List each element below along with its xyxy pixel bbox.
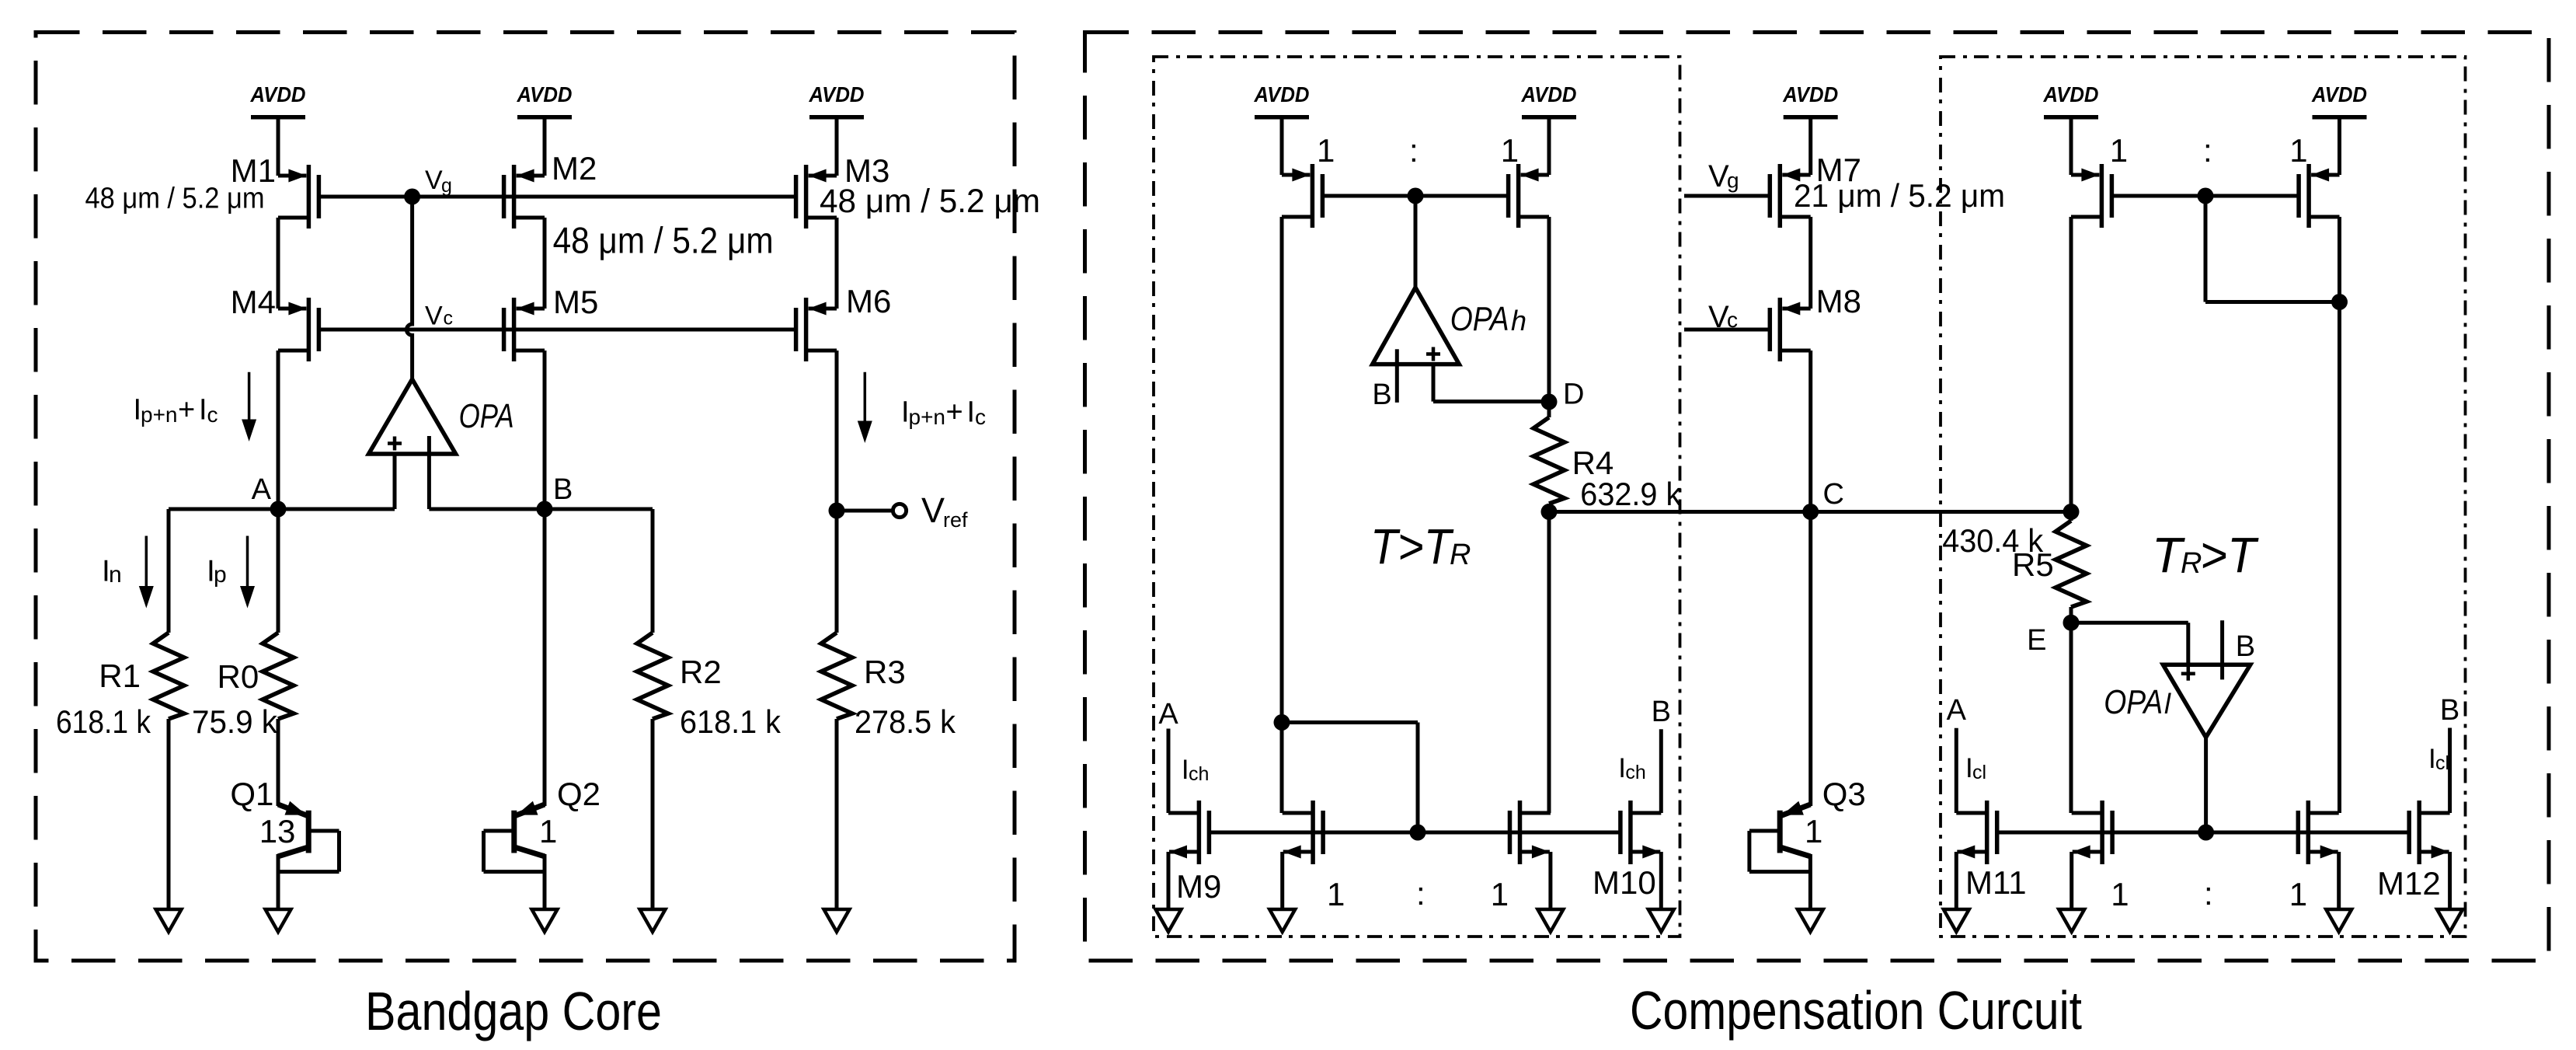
ground (R2) — [640, 909, 666, 932]
transistor P1 left (1) — [1282, 164, 1322, 228]
transistor M12 — [2409, 801, 2449, 864]
transistor M3 — [796, 165, 837, 228]
svg-text:p+n: p+n — [141, 403, 178, 427]
svg-text:AVDD: AVDD — [250, 82, 306, 106]
wire node A to R0 — [277, 509, 280, 633]
node P1 left drain junction — [1274, 714, 1290, 731]
node P2 gate — [2198, 188, 2214, 204]
label Icl (M11) — [1965, 753, 1986, 783]
wire P2 diode link — [2205, 196, 2340, 302]
svg-text:c: c — [444, 308, 454, 330]
wire M10 source to ground — [1659, 852, 1663, 909]
wire OPAl output to NMOS gate rail — [2204, 738, 2208, 832]
svg-text:A: A — [1947, 694, 1967, 727]
wire node B to Q2 — [543, 509, 547, 806]
node NMOS gate rail junction (T>TR) — [1410, 825, 1426, 841]
svg-text:R: R — [1450, 539, 1471, 571]
svg-text:M11: M11 — [1965, 864, 2027, 901]
svg-text:B: B — [1652, 696, 1671, 728]
label A — [252, 473, 272, 506]
label R2 — [680, 654, 722, 690]
label 1 (P1 right) — [1501, 132, 1519, 169]
svg-text:1: 1 — [539, 813, 557, 849]
svg-text:c: c — [1727, 308, 1738, 332]
label : (N2 ratio) — [2204, 875, 2213, 912]
current arrow Ip+n+Ic (right) — [858, 372, 872, 443]
svg-text:AVDD: AVDD — [1521, 82, 1577, 106]
frame: Bandgap Core dashed box — [36, 33, 1015, 961]
ground (N1c) — [1537, 909, 1563, 932]
label 21 um / 5.2 um (M7) — [1794, 177, 2005, 214]
label Q3 — [1822, 776, 1866, 812]
label M2 — [552, 150, 597, 187]
power AVDD (P1 right) — [1521, 82, 1577, 175]
terminal Vref open circle — [893, 504, 906, 517]
net Vg rail — [319, 195, 796, 199]
label 1 (P2 left) — [2110, 132, 2128, 169]
svg-text:1: 1 — [1491, 876, 1509, 912]
svg-text:Q2: Q2 — [557, 776, 600, 812]
svg-text:D: D — [1563, 378, 1584, 411]
svg-text:>T: >T — [2200, 527, 2259, 583]
label B (M12) — [2440, 694, 2459, 727]
net C rail — [1549, 510, 2071, 514]
transistor Q1 — [278, 801, 339, 909]
label B (OPAl input) — [2236, 630, 2255, 663]
net Vc rail — [319, 328, 796, 332]
svg-text:V: V — [425, 166, 443, 195]
label Ich (M9) — [1182, 755, 1210, 785]
op-amp OPA — [369, 379, 456, 454]
node B — [537, 501, 553, 518]
svg-text:278.5 k: 278.5 k — [855, 703, 956, 740]
wire M5 drain to node B — [543, 351, 547, 509]
wire node C to Q3 — [1808, 512, 1812, 807]
wire node E to OPAl + input — [2071, 623, 2188, 665]
node E — [2063, 615, 2080, 631]
svg-text:B: B — [553, 473, 573, 506]
label : (N1 ratio) — [1416, 875, 1426, 912]
label Icl (M12) — [2428, 744, 2449, 774]
ground (M12) — [2437, 909, 2463, 932]
current arrow Ip — [240, 536, 255, 609]
svg-text:A: A — [252, 473, 272, 506]
svg-text:B: B — [2440, 694, 2459, 727]
svg-text:ch: ch — [1189, 763, 1209, 785]
svg-text:430.4 k: 430.4 k — [1942, 522, 2044, 559]
svg-text:1: 1 — [1501, 132, 1519, 169]
label M7 — [1816, 152, 1861, 188]
svg-text:g: g — [441, 175, 452, 197]
svg-text:1: 1 — [2110, 132, 2128, 169]
label 1 (N1b) — [1327, 876, 1345, 912]
label M3 — [844, 152, 889, 189]
wire R4 node down to N1c — [1547, 512, 1551, 814]
label M10 — [1593, 864, 1656, 901]
stub Vg (M7 gate) — [1684, 194, 1770, 198]
label 48 um / 5.2 um (M3) — [820, 183, 1040, 220]
transistor Q2 — [484, 801, 545, 909]
wire Vref node to terminal — [837, 509, 892, 513]
current arrow In — [139, 536, 154, 609]
wire M12 source to ground — [2448, 852, 2452, 909]
svg-text:R3: R3 — [864, 654, 906, 690]
node R4 bottom — [1541, 504, 1558, 520]
power AVDD (P1 left) — [1254, 82, 1310, 175]
svg-text:+: + — [946, 396, 963, 429]
node P2 right drain — [2331, 294, 2348, 310]
svg-text:1: 1 — [2289, 876, 2307, 912]
transistor M10 — [1620, 801, 1661, 864]
transistor P1 right (1) — [1509, 164, 1549, 228]
wire R5 to node E — [2070, 607, 2073, 623]
wire OPAh + input to node D — [1433, 365, 1549, 402]
wire diode link to NMOS gate rail — [1282, 723, 1418, 833]
transistor N1c (1) — [1510, 801, 1551, 864]
svg-text:ref: ref — [943, 508, 968, 532]
wire node B rail — [429, 508, 653, 511]
svg-text:l: l — [2164, 688, 2171, 720]
op-amp OPAh — [1373, 288, 1460, 365]
wire M7 drain to M8 source — [1808, 217, 1812, 309]
resistor R0 — [263, 633, 294, 719]
label B (OPAh input) — [1372, 378, 1391, 411]
title Bandgap Core — [365, 981, 662, 1041]
svg-text:R2: R2 — [680, 654, 722, 690]
svg-text:Q3: Q3 — [1822, 776, 1866, 812]
wire M1 drain to M4 source — [277, 218, 280, 309]
svg-text:632.9 k: 632.9 k — [1580, 476, 1682, 512]
transistor M9 — [1168, 801, 1209, 864]
svg-text:n: n — [109, 562, 122, 588]
svg-text:Bandgap Core: Bandgap Core — [365, 981, 662, 1041]
ground (Q3) — [1798, 909, 1823, 932]
svg-text:cl: cl — [2435, 752, 2449, 774]
node R5 top — [2063, 504, 2080, 520]
svg-text:T>T: T>T — [1370, 518, 1454, 574]
svg-text:R1: R1 — [99, 658, 141, 694]
ground (M9) — [1156, 909, 1182, 932]
node P1 gate — [1408, 188, 1424, 204]
svg-text:C: C — [1823, 478, 1844, 511]
svg-text:+: + — [178, 394, 195, 427]
transistor M4 — [278, 298, 319, 361]
label R4 — [1572, 445, 1614, 481]
label R3 — [864, 654, 906, 690]
transistor P2 left (1) — [2071, 164, 2111, 228]
svg-text:p: p — [214, 562, 227, 588]
title Compensation Curcuit — [1630, 980, 2082, 1041]
ground (N2c) — [2326, 909, 2351, 932]
transistor N2b (1) — [2072, 801, 2112, 864]
svg-text:B: B — [2236, 630, 2255, 663]
wire R3 to ground — [835, 719, 839, 909]
svg-text:V: V — [425, 302, 443, 331]
wire OPAh - input stub (net B) — [1395, 365, 1399, 403]
transistor M7 — [1770, 164, 1810, 228]
label 48 um / 5.2 um (M2) — [553, 219, 774, 260]
frame: TR>T dash-dot box — [1941, 57, 2466, 937]
ground (N1b) — [1269, 909, 1295, 932]
transistor N2c (1) — [2298, 801, 2338, 864]
svg-text:I: I — [199, 394, 207, 427]
svg-text:AVDD: AVDD — [809, 82, 865, 106]
label : (P2 ratio) — [2203, 132, 2212, 169]
label 618.1 k (R2) — [680, 703, 782, 740]
wire P2 right drain down — [2338, 217, 2341, 302]
svg-text:618.1 k: 618.1 k — [56, 703, 151, 740]
label A (M9) — [1158, 698, 1178, 731]
power AVDD (P2 left) — [2043, 82, 2099, 175]
wire N2c source to ground — [2337, 852, 2341, 909]
svg-text:ch: ch — [1625, 762, 1645, 783]
svg-text::: : — [1416, 875, 1426, 912]
svg-text:Compensation Curcuit: Compensation Curcuit — [1630, 980, 2082, 1041]
svg-text:1: 1 — [2111, 876, 2129, 912]
transistor N1b (1) — [1283, 801, 1323, 864]
label Vg — [425, 166, 452, 197]
svg-text:48 μm / 5.2 μm: 48 μm / 5.2 μm — [820, 183, 1040, 220]
label R1 — [99, 658, 141, 694]
label 48 um / 5.2 um (M1) — [85, 183, 265, 215]
frame: T>TR dash-dot box — [1154, 57, 1680, 937]
wire node A rail — [169, 508, 395, 511]
wire R0 to Q1 — [277, 719, 280, 806]
transistor M5 — [504, 298, 545, 361]
label Ich (M10) — [1618, 753, 1646, 783]
label T>TR — [1370, 518, 1471, 574]
frame: Compensation Curcuit dashed box — [1085, 33, 2550, 961]
resistor R5 — [2056, 521, 2087, 607]
svg-text::: : — [1409, 132, 1419, 169]
label 1 (P2 right) — [2289, 132, 2307, 169]
transistor M2 — [504, 165, 545, 228]
label : (P1 ratio) — [1409, 132, 1419, 169]
svg-text:p+n: p+n — [909, 405, 946, 429]
ground (R3) — [824, 909, 850, 932]
svg-text:c: c — [975, 405, 986, 429]
svg-text:AVDD: AVDD — [2311, 82, 2367, 106]
label D — [1563, 378, 1584, 411]
wire Vref to R3 — [835, 511, 839, 633]
label Ip+n+Ic (left) — [134, 394, 218, 427]
wire M8 drain to node C — [1808, 351, 1812, 512]
stub net B (M12) — [2448, 728, 2452, 814]
label Q1 — [230, 776, 273, 812]
power AVDD (M1) — [250, 82, 306, 176]
svg-text:48 μm / 5.2 μm: 48 μm / 5.2 μm — [85, 183, 265, 215]
svg-text:1: 1 — [1327, 876, 1345, 912]
svg-text:13: 13 — [259, 813, 296, 849]
label M1 — [231, 152, 276, 189]
wire M3 drain to M6 source — [835, 218, 839, 309]
label C — [1823, 478, 1844, 511]
transistor M6 — [796, 298, 837, 361]
node C — [1802, 504, 1819, 520]
resistor R2 — [637, 633, 668, 719]
svg-text:g: g — [1727, 169, 1739, 193]
wire M6 drain to Vref node — [835, 351, 839, 511]
label M8 — [1816, 283, 1861, 319]
label E — [2027, 624, 2046, 657]
svg-text:V: V — [1708, 159, 1729, 194]
transistor P2 right (1) — [2299, 164, 2339, 228]
label 75.9 k (R0) — [192, 703, 278, 740]
svg-text:AVDD: AVDD — [517, 82, 573, 106]
stub Vc (M8 gate) — [1684, 328, 1770, 332]
svg-text:OPA: OPA — [1450, 300, 1509, 338]
ground (Q2) — [532, 909, 558, 932]
wire P1 left drain to N1b — [1280, 723, 1284, 814]
svg-text:M8: M8 — [1816, 283, 1861, 319]
label 1 (P1 left) — [1317, 132, 1335, 169]
svg-text:1: 1 — [1317, 132, 1335, 169]
ground (M11) — [1944, 909, 1969, 932]
wire OPA + input to node A rail — [393, 454, 397, 509]
svg-text:618.1 k: 618.1 k — [680, 703, 782, 740]
ground (R1) — [156, 909, 182, 932]
svg-text:M2: M2 — [552, 150, 597, 187]
label OPAl — [2104, 683, 2171, 721]
svg-text:V: V — [1708, 300, 1729, 334]
svg-text:AVDD: AVDD — [1782, 82, 1838, 106]
wire N1b source to ground — [1280, 852, 1284, 909]
svg-text:OPA: OPA — [2104, 683, 2163, 721]
net NMOS gate rail (TR>T) — [1997, 831, 2410, 835]
op-amp OPAl — [2163, 665, 2250, 737]
label A (M11) — [1947, 694, 1967, 727]
label OPA — [459, 397, 514, 435]
wire P2 left drain down to R5 top — [2070, 217, 2073, 512]
label 430.4 k (R5) — [1942, 522, 2044, 559]
label M11 — [1965, 864, 2027, 901]
wire P1 gate node to OPAh — [1414, 196, 1418, 288]
label 1 (N1c) — [1491, 876, 1509, 912]
label M9 — [1176, 868, 1221, 905]
svg-text:M9: M9 — [1176, 868, 1221, 905]
wire OPAl - input stub (net B) — [2220, 620, 2224, 665]
svg-text:cl: cl — [1972, 762, 1986, 783]
label OPAh — [1450, 300, 1526, 338]
wire M4 drain to node A — [277, 351, 280, 509]
svg-text:B: B — [1372, 378, 1391, 411]
wire D to R4 — [1547, 402, 1551, 417]
wire R2 to ground — [651, 719, 655, 909]
wire node E down to N2b — [2070, 623, 2073, 813]
wire M2 drain to M5 source — [543, 218, 547, 309]
svg-text:AVDD: AVDD — [1254, 82, 1310, 106]
svg-text:c: c — [207, 403, 218, 427]
svg-text:R0: R0 — [218, 658, 259, 695]
stub net A (M9) — [1167, 729, 1171, 814]
label Ip — [207, 555, 227, 588]
wire R1 to ground — [167, 719, 171, 909]
svg-text:h: h — [1511, 305, 1526, 337]
label M5 — [553, 284, 598, 320]
wire P1 left drain down — [1280, 217, 1284, 723]
label M6 — [846, 283, 891, 319]
wire M9 source to ground — [1167, 852, 1171, 909]
wire P1 right drain to node D — [1547, 217, 1551, 402]
svg-text:R: R — [2181, 547, 2202, 580]
svg-text::: : — [2203, 132, 2212, 169]
svg-text:E: E — [2027, 624, 2046, 657]
label M4 — [231, 284, 276, 320]
transistor M8 — [1770, 298, 1810, 361]
stub net A (M11) — [1955, 728, 1958, 813]
wire node B to R2 — [651, 509, 655, 633]
wire OPA - input to node B rail — [427, 454, 431, 509]
svg-text:Q1: Q1 — [230, 776, 273, 812]
svg-text:1: 1 — [1805, 813, 1822, 849]
label M12 — [2377, 865, 2441, 902]
ground (N2b) — [2059, 909, 2084, 932]
current arrow Ip+n+Ic (left) — [242, 372, 256, 441]
label Vref — [921, 490, 968, 532]
label 1 (N2b) — [2111, 876, 2129, 912]
wire Vg to OPA output (hop over Vc) — [406, 197, 412, 379]
wire node A to R1 — [167, 509, 171, 633]
wire N2b source to ground — [2070, 852, 2073, 909]
transistor M11 — [1956, 801, 1996, 864]
node Vg — [404, 189, 420, 205]
transistor Q3 — [1749, 801, 1811, 909]
label B — [553, 473, 573, 506]
label 1 (Q2) — [539, 813, 557, 849]
svg-text:75.9 k: 75.9 k — [192, 703, 278, 740]
stub net B (M10) — [1659, 729, 1663, 813]
label TR>T — [2152, 527, 2259, 583]
node A — [270, 501, 287, 518]
ground (M10) — [1648, 909, 1674, 932]
wire M11 source to ground — [1955, 852, 1958, 909]
label 632.9 k (R4) — [1580, 476, 1682, 512]
resistor R4 — [1533, 417, 1565, 504]
svg-text:M12: M12 — [2377, 865, 2441, 902]
label B (M10) — [1652, 696, 1671, 728]
ground (Q1) — [266, 909, 291, 932]
svg-text:M10: M10 — [1593, 864, 1656, 901]
resistor R1 — [153, 633, 184, 719]
wire R4 to C rail node — [1547, 504, 1551, 512]
label Ip+n+Ic (right) — [901, 396, 986, 430]
label 1 (Q3) — [1805, 813, 1822, 849]
svg-text:48 μm / 5.2 μm: 48 μm / 5.2 μm — [553, 219, 774, 260]
label 1 (N2c) — [2289, 876, 2307, 912]
label R0 — [218, 658, 259, 695]
svg-text:M5: M5 — [553, 284, 598, 320]
svg-text::: : — [2204, 875, 2213, 912]
svg-text:V: V — [921, 490, 945, 530]
power AVDD (M3) — [809, 82, 865, 176]
node NMOS gate rail junction (TR>T) — [2198, 825, 2214, 841]
svg-text:A: A — [1158, 698, 1178, 731]
label R5 — [2012, 546, 2054, 583]
label Vc — [425, 302, 453, 331]
wire R5 top — [2070, 512, 2073, 522]
wire N1c source to ground — [1548, 852, 1552, 909]
svg-text:21 μm / 5.2 μm: 21 μm / 5.2 μm — [1794, 177, 2005, 214]
wire P2 right drain to N2c — [2338, 302, 2341, 814]
label 618.1 k (R1) — [56, 703, 151, 740]
power AVDD (M2) — [517, 82, 573, 176]
svg-text:I: I — [967, 396, 976, 429]
power AVDD (P2 right) — [2311, 82, 2367, 175]
net P2 gate rail — [2111, 194, 2299, 198]
label 13 (Q1) — [259, 813, 296, 849]
resistor R3 — [821, 633, 852, 719]
svg-text:1: 1 — [2289, 132, 2307, 169]
